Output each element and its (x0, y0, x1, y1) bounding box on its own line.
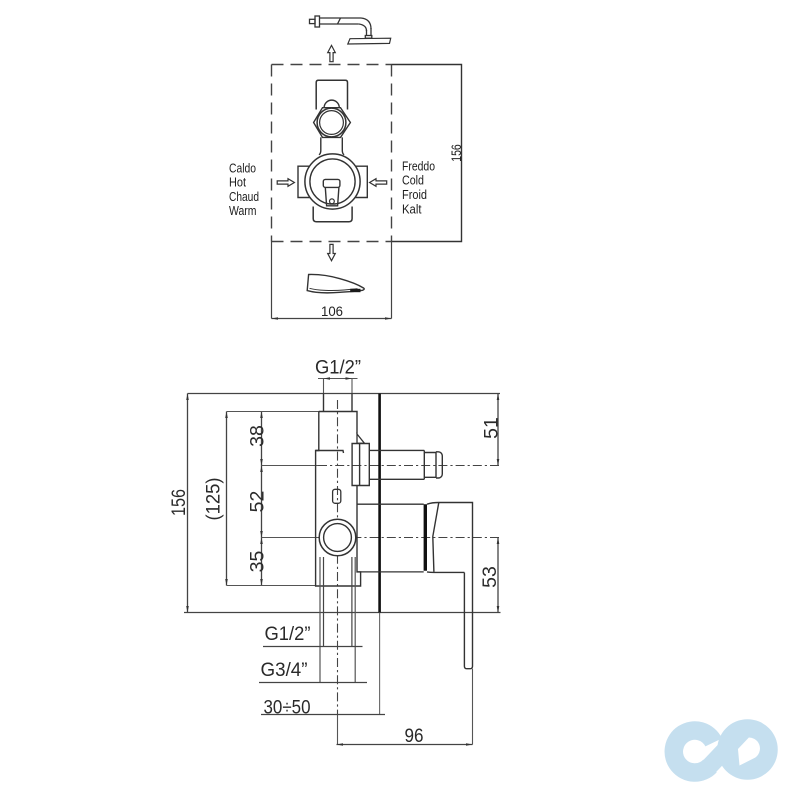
dimension 125 line (226, 412, 228, 586)
svg-text:Warm: Warm (229, 204, 257, 218)
svg-text:Cold: Cold (402, 174, 424, 188)
svg-text:G1/2”: G1/2” (315, 357, 361, 379)
centerline diverter (262, 465, 319, 467)
right inlet tab (355, 166, 367, 197)
nut circles (317, 108, 346, 137)
installation zone dashed box (272, 65, 392, 242)
diverter gusset (357, 434, 365, 443)
spout inner line (310, 288, 358, 290)
svg-text:Caldo: Caldo (229, 161, 256, 175)
diverter stem (369, 450, 442, 479)
shower arm (310, 16, 372, 38)
wall box solid 156 zone (392, 65, 462, 242)
valve main circles (305, 154, 360, 209)
svg-text:Kalt: Kalt (402, 202, 422, 216)
svg-text:Hot: Hot (229, 176, 246, 190)
dimension 53 (497, 538, 499, 613)
svg-text:Freddo: Freddo (402, 159, 435, 173)
center axis vertical (337, 400, 339, 715)
handle (427, 503, 473, 669)
svg-text:(125): (125) (202, 478, 224, 521)
dimension 51 (497, 394, 499, 466)
body pipe top (324, 394, 353, 412)
lower pipe inner (324, 557, 352, 647)
valve top shield (316, 80, 347, 109)
label hot Caldo Hot Chaud Warm (229, 161, 259, 218)
flow arrow up (328, 45, 336, 61)
label cold Freddo Cold Froid Kalt (402, 159, 435, 216)
svg-text:96: 96 (405, 725, 424, 747)
bottom extension line (184, 612, 501, 614)
svg-text:Froid: Froid (402, 188, 427, 202)
svg-text:106: 106 (321, 303, 343, 319)
wall line (378, 394, 381, 613)
svg-text:Chaud: Chaud (229, 190, 259, 204)
left inlet tab (298, 166, 310, 197)
diverter collar (352, 444, 369, 486)
valve dome (324, 100, 339, 108)
dimension 96 (472, 669, 474, 745)
dimension chain 38 52 35 (261, 412, 263, 586)
svg-text:30÷50: 30÷50 (264, 697, 311, 719)
svg-text:156: 156 (449, 144, 464, 162)
svg-text:G3/4”: G3/4” (261, 659, 308, 681)
svg-text:38: 38 (247, 425, 269, 447)
bath spout (307, 274, 364, 292)
button (333, 489, 341, 503)
flow arrow down (328, 244, 336, 260)
svg-text:52: 52 (247, 491, 269, 513)
escutcheon rim thick bar (424, 504, 427, 571)
valve bottom box (313, 207, 352, 222)
svg-text:53: 53 (479, 566, 501, 588)
escutcheon top and bottom (357, 504, 424, 572)
lower pipe outer (320, 557, 355, 682)
dimension 156 line (187, 394, 189, 613)
logo left ring C (674, 731, 714, 773)
centerline valve (262, 537, 319, 539)
shower head plate (348, 38, 391, 44)
extension line bottom of body (227, 585, 317, 587)
logo right ring with teardrop hole (717, 719, 778, 780)
spout aerator (350, 289, 360, 292)
extension line top of body (227, 411, 321, 413)
handle detail (323, 179, 340, 205)
svg-text:156: 156 (168, 489, 190, 516)
valve circles side (319, 519, 356, 556)
dimension 106 (272, 242, 392, 319)
svg-text:35: 35 (247, 551, 269, 573)
cold inlet arrow (370, 179, 387, 187)
hex nut (314, 108, 351, 138)
svg-text:51: 51 (481, 417, 503, 439)
hot inlet arrow (277, 179, 294, 187)
logo watermark (674, 719, 778, 780)
body outline (316, 412, 361, 587)
valve neck (319, 137, 344, 154)
top extension line (188, 393, 501, 395)
svg-text:G1/2”: G1/2” (265, 623, 311, 645)
logo diagonal stroke (706, 732, 743, 771)
